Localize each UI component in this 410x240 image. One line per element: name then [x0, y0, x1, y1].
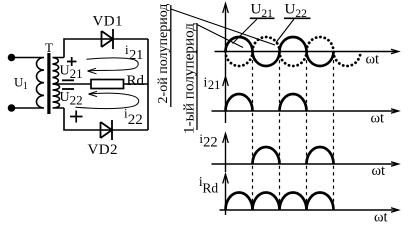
diode VD2: [101, 120, 113, 140]
svg-text:ωt: ωt: [366, 52, 380, 68]
plot3 horizontal axis wt: [212, 163, 399, 165]
svg-text:21: 21: [208, 78, 221, 92]
leader U21: [233, 19, 258, 44]
node dashed timing line 3: [306, 54, 308, 211]
annotation line 2nd half-period: [170, 5, 172, 107]
transformer secondary winding U22: [53, 84, 65, 108]
svg-text:U22: U22: [60, 90, 83, 108]
wire secondary bottom to VD2 anode: [64, 108, 101, 130]
svg-text:ωt: ωt: [372, 163, 386, 179]
node input terminal top: [8, 54, 16, 62]
leader line 2nd half-period: [171, 9, 275, 45]
node dashed timing line 4: [333, 54, 335, 211]
waveform i21: [226, 94, 307, 111]
plot3 vertical axis: [225, 134, 227, 173]
wire secondary top to VD1 anode: [64, 39, 102, 58]
svg-text:T: T: [45, 40, 53, 55]
plot2 vertical axis: [225, 77, 227, 124]
transformer T core: [47, 53, 50, 114]
wire center tap to Rd: [53, 83, 92, 85]
wire input top: [15, 57, 38, 59]
leader U22: [276, 19, 294, 43]
wire right bus: [147, 39, 149, 130]
resistor Rd: [91, 80, 124, 89]
svg-text:2-ой полупериод: 2-ой полупериод: [156, 4, 171, 104]
plot1 vertical axis: [225, 4, 227, 77]
wire VD2 cathode to right bus: [112, 129, 148, 131]
svg-text:1-ый полупериод: 1-ый полупериод: [180, 23, 197, 134]
waveform U21 solid curve: [226, 37, 334, 66]
svg-text:VD2: VD2: [88, 142, 118, 158]
node input terminal bottom: [8, 104, 16, 112]
svg-text:ωt: ωt: [371, 111, 385, 127]
annotation line 1st half-period: [196, 23, 198, 130]
waveform iRd: [226, 193, 334, 211]
svg-text:ωt: ωt: [374, 210, 388, 225]
transformer secondary winding U21: [53, 58, 65, 85]
transformer T primary winding: [36, 58, 44, 109]
svg-text:Rd: Rd: [202, 181, 218, 196]
svg-text:U21: U21: [60, 64, 83, 82]
diode VD1: [102, 29, 114, 49]
svg-text:Rd: Rd: [127, 73, 145, 89]
svg-text:i: i: [204, 74, 208, 89]
wire Rd to right bus: [124, 83, 149, 85]
waveform i22: [253, 147, 334, 164]
plot1 horizontal axis wt: [215, 51, 399, 53]
polarity minus U22 top: [62, 88, 74, 90]
plot4 horizontal axis wt: [220, 209, 399, 211]
node dashed timing line 1: [252, 54, 254, 211]
svg-text:21: 21: [129, 48, 143, 63]
current loop arrow i21: [87, 58, 139, 74]
node dashed timing line 2: [279, 54, 281, 211]
svg-text:22: 22: [203, 135, 218, 151]
wire input bottom: [15, 107, 38, 109]
polarity minus U21 bottom: [62, 79, 74, 81]
svg-text:VD1: VD1: [93, 14, 123, 30]
polarity plus U21 top: [67, 57, 77, 66]
polarity plus U22 bottom: [70, 111, 83, 123]
svg-text:22: 22: [128, 112, 143, 128]
wire VD1 cathode to right bus: [113, 38, 148, 40]
plot4 vertical axis: [225, 174, 227, 215]
plot2 horizontal axis wt: [212, 110, 399, 112]
leader line 1st half-period: [197, 25, 243, 48]
waveform U22 dotted curve: [226, 37, 361, 66]
current loop arrow i22: [76, 91, 139, 108]
